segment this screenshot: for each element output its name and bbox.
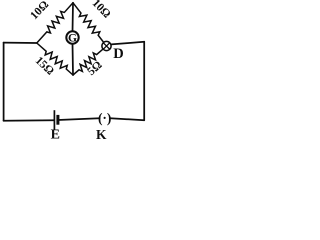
resistor 10ohm top-right arm [73, 3, 104, 43]
wire top-left horizontal [4, 42, 37, 44]
resistor 5ohm bottom-right arm [73, 49, 103, 75]
svg-text:E: E [51, 128, 60, 143]
wire battery to key [58, 118, 100, 120]
svg-text:D: D [113, 46, 123, 62]
resistor 15ohm bottom-left arm [37, 43, 73, 75]
svg-text:(·): (·) [98, 111, 112, 126]
battery E plates [54, 110, 58, 130]
op: galvanometer G [66, 31, 78, 43]
node D (circle with cross) [102, 41, 111, 50]
wire galvanometer branch top [72, 3, 75, 32]
wire bottom-left to battery [4, 119, 55, 122]
wire D to right edge [111, 42, 144, 45]
resistor 10ohm top-left arm [37, 3, 73, 43]
wire key to bottom-right corner [110, 42, 144, 121]
svg-text:G: G [68, 32, 77, 44]
svg-text:10Ω: 10Ω [28, 0, 51, 22]
wire galvanometer branch bottom [72, 44, 75, 75]
wire left vertical [3, 43, 5, 121]
svg-text:K: K [96, 127, 107, 142]
svg-text:10Ω: 10Ω [90, 0, 113, 21]
